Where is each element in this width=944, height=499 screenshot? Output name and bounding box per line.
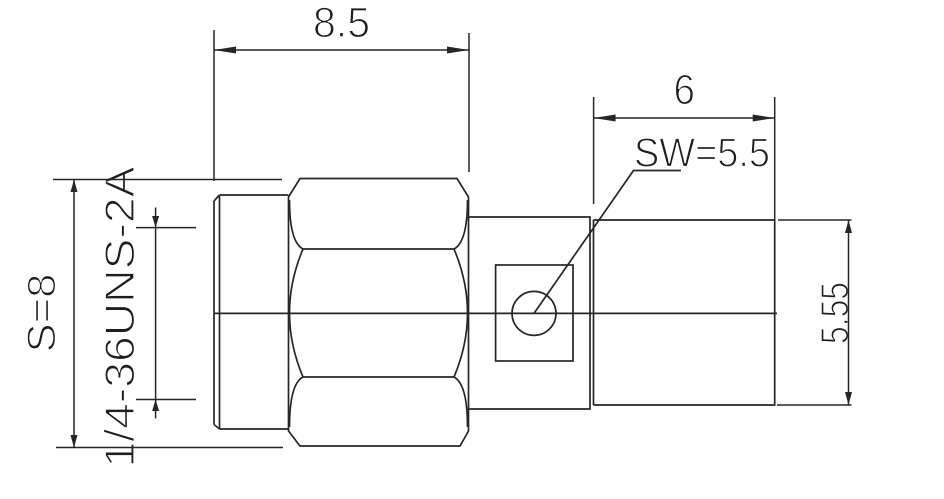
dim 6 extension line right bbox=[774, 97, 776, 220]
arrow S=8 top bbox=[71, 180, 78, 193]
hex chamfer arc right middle bbox=[454, 249, 468, 377]
hex chamfer arc left top bbox=[290, 200, 304, 249]
dim 8.5 extension line right bbox=[468, 33, 470, 172]
dim 8.5 extension line left bbox=[213, 30, 215, 181]
barrel section bbox=[594, 220, 775, 405]
crimp hole circle bbox=[512, 291, 556, 335]
crimp square detail bbox=[496, 265, 573, 361]
svg-text:SW=5.5: SW=5.5 bbox=[634, 130, 770, 176]
svg-text:S=8: S=8 bbox=[20, 274, 64, 353]
svg-text:1/4-36UNS-2A: 1/4-36UNS-2A bbox=[96, 167, 143, 468]
hex chamfer arc left middle bbox=[290, 249, 304, 377]
hex chamfer arc right top bbox=[454, 200, 468, 249]
svg-text:6: 6 bbox=[673, 66, 695, 114]
hex chamfer arc left bottom bbox=[290, 377, 304, 427]
dim 5.55 extension line bottom bbox=[777, 404, 852, 406]
hex nut outline bbox=[289, 179, 469, 447]
centerline bbox=[214, 312, 777, 314]
thread dim tick top bbox=[136, 227, 196, 229]
hex chamfer arc right bottom bbox=[454, 377, 468, 427]
thread dim dimension line bbox=[155, 208, 157, 419]
hex flat line upper bbox=[303, 248, 455, 250]
arrow 6 left bbox=[594, 115, 616, 122]
threaded section body bbox=[214, 195, 289, 429]
dim S=8 dimension line bbox=[73, 180, 75, 448]
svg-text:5.55: 5.55 bbox=[814, 282, 857, 344]
hex flat line lower bbox=[303, 376, 455, 378]
leader line SW=5.5 bbox=[534, 171, 681, 314]
arrow 6 right bbox=[753, 115, 775, 122]
arrow thread dim top (points down at tick) bbox=[152, 216, 159, 228]
dim 6 extension line left bbox=[593, 97, 595, 204]
arrow thread dim bottom (points up at tick) bbox=[152, 400, 159, 412]
dim 5.55 dimension line bbox=[848, 220, 850, 405]
dim 8.5 dimension line bbox=[214, 49, 469, 51]
svg-text:8.5: 8.5 bbox=[313, 0, 370, 47]
arrow 8.5 left bbox=[214, 47, 236, 54]
arrow 8.5 right bbox=[447, 47, 469, 54]
arrow S=8 bottom bbox=[71, 435, 78, 448]
arrow 5.55 top bbox=[845, 220, 852, 233]
dim 5.55 extension line top bbox=[778, 219, 852, 221]
dim 6 dimension line bbox=[594, 117, 775, 119]
dim S=8 extension line bottom bbox=[56, 447, 283, 449]
arrow 5.55 bottom bbox=[845, 392, 852, 405]
dim S=8 extension line top bbox=[53, 179, 282, 181]
thread dim tick bottom bbox=[136, 399, 196, 401]
flat (SW) section bbox=[469, 217, 591, 409]
